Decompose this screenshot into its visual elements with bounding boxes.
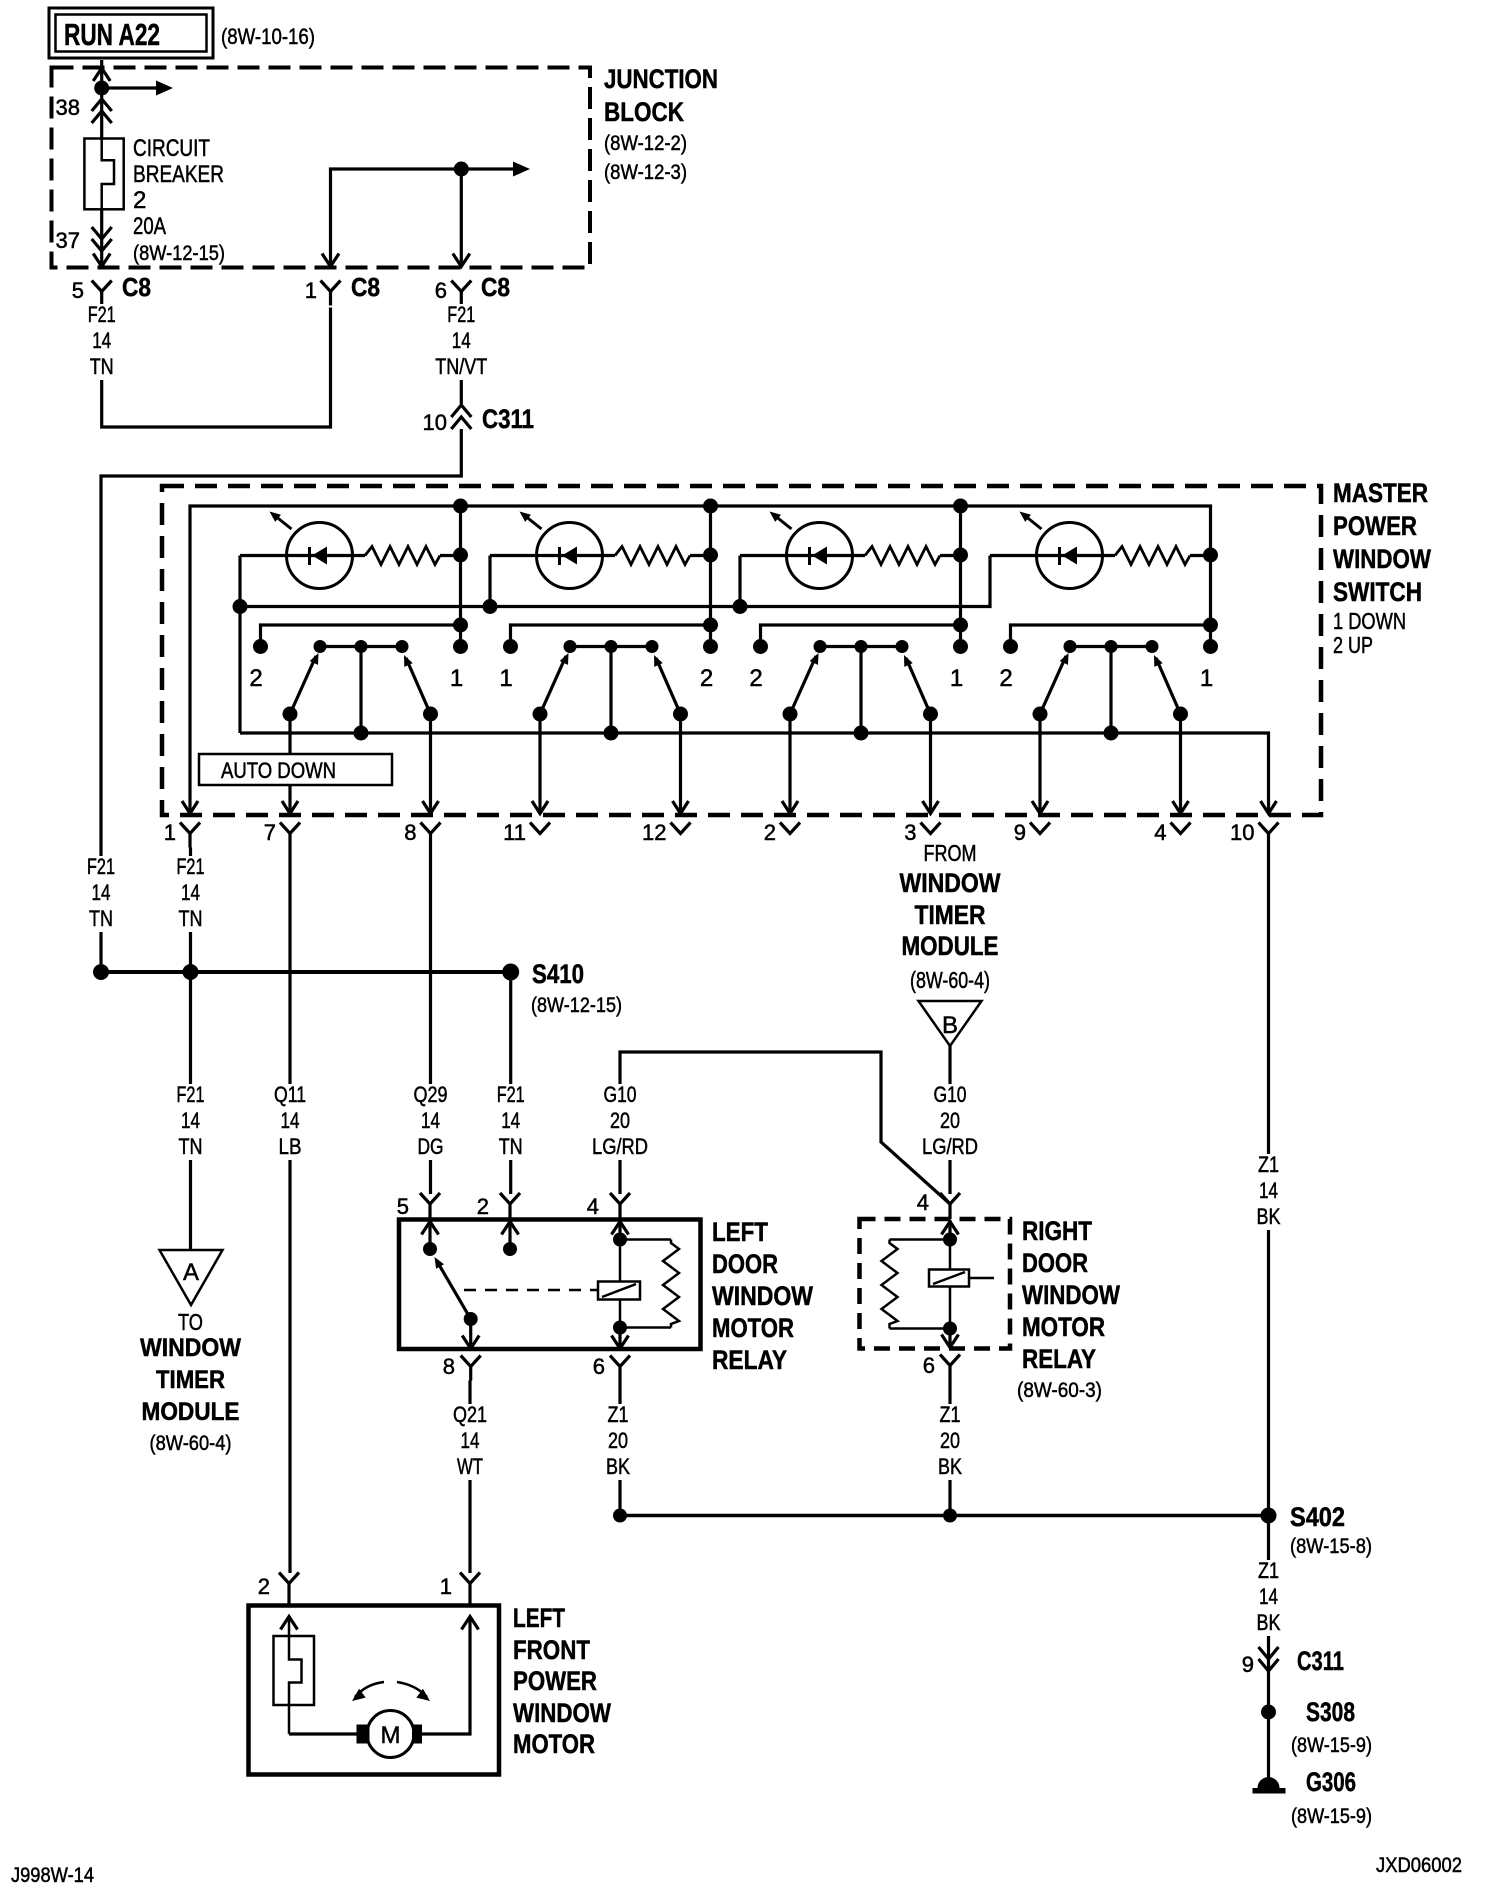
connector C8 pin 6 — [451, 281, 471, 292]
svg-text:1 DOWN: 1 DOWN — [1333, 608, 1406, 634]
lamp L3 wire through bulb — [740, 554, 865, 557]
switch unit 4 wire to bottom pins — [1038, 714, 1041, 813]
svg-text:AUTO DOWN: AUTO DOWN — [221, 758, 336, 783]
switch unit 2 contact dots — [503, 639, 518, 654]
switch S1 arm (down) — [290, 656, 316, 714]
switch unit 4 vertical wire — [1203, 548, 1218, 563]
connector C8 pin 1 — [321, 281, 341, 292]
wire label F21 14 TN (pin 1) — [157, 856, 225, 932]
splice S410 dots — [93, 964, 109, 980]
wire from breaker to motor — [289, 1732, 357, 1735]
right relay coil K2 wire — [949, 1240, 952, 1329]
switch connector pin 9 — [1030, 823, 1050, 834]
svg-text:8: 8 — [443, 1354, 455, 1379]
svg-text:Z1: Z1 — [1258, 1558, 1279, 1583]
illumination lamp L2 circle — [537, 523, 603, 589]
svg-text:1: 1 — [1200, 665, 1213, 692]
svg-text:2: 2 — [133, 187, 146, 214]
switch S2 arm (up) — [656, 658, 681, 714]
svg-text:2: 2 — [249, 665, 262, 692]
svg-text:Z1: Z1 — [1258, 1152, 1279, 1177]
triangle connector B from window timer module — [919, 1001, 982, 1046]
svg-text:1: 1 — [164, 820, 176, 845]
svg-text:BK: BK — [938, 1454, 962, 1479]
wire from RUN A22 into junction block — [100, 60, 103, 140]
svg-text:(8W-15-8): (8W-15-8) — [1290, 1535, 1372, 1558]
wire from switch pin 8 to left relay pin 5 — [429, 848, 432, 1195]
connector C311 pin 10 (double chevron) — [451, 405, 471, 417]
wire from switch pin 10 down right side — [1267, 848, 1270, 1516]
resistor R3 (lamp dropping resistor) — [865, 547, 940, 565]
svg-text:JXD06002: JXD06002 — [1376, 1854, 1462, 1877]
wire from left relay pin 6 to ground bus — [618, 1381, 621, 1516]
svg-text:Q29: Q29 — [414, 1082, 448, 1107]
svg-text:C8: C8 — [122, 272, 151, 302]
svg-text:2: 2 — [749, 665, 762, 692]
wire from motor to pin 1 — [422, 1617, 470, 1734]
lamp L2 diode element — [558, 547, 561, 565]
svg-text:C311: C311 — [1297, 1646, 1344, 1676]
svg-text:M: M — [381, 1722, 401, 1749]
svg-text:RIGHT: RIGHT — [1022, 1216, 1092, 1246]
svg-text:MOTOR: MOTOR — [712, 1313, 794, 1343]
svg-text:RELAY: RELAY — [712, 1345, 787, 1375]
switch unit 2 lamp branch wire — [488, 556, 491, 607]
illumination arrow unit 2 — [524, 515, 542, 529]
connector C8 pin 5 — [92, 281, 112, 292]
svg-text:4: 4 — [917, 1190, 929, 1215]
resistor R4 (lamp dropping resistor) — [1115, 547, 1190, 565]
switch unit 3 lamp branch wire — [738, 556, 741, 607]
wire label Z1 14 BK (below S402) — [1235, 1560, 1303, 1636]
left relay connector pin 4 — [610, 1193, 630, 1204]
switch unit 1 vertical wire — [459, 506, 462, 647]
svg-text:14: 14 — [281, 1108, 300, 1133]
svg-text:J998W-14: J998W-14 — [11, 1864, 94, 1887]
left relay pin 2 terminal — [508, 1220, 511, 1249]
svg-text:Q21: Q21 — [453, 1402, 487, 1427]
svg-text:FRONT: FRONT — [513, 1635, 590, 1665]
ground G306 symbol — [1258, 1777, 1280, 1788]
left relay switch arm — [438, 1263, 471, 1319]
circuit breaker internal element — [102, 139, 114, 210]
master power window switch dashed outline — [162, 486, 1321, 815]
junction dot inside junction block — [454, 162, 469, 177]
svg-text:2: 2 — [258, 1574, 270, 1599]
svg-text:TN: TN — [179, 1134, 203, 1159]
exit arrowhead at border pin 6 — [453, 254, 470, 267]
svg-text:LEFT: LEFT — [712, 1217, 768, 1247]
supply rail wire across top of switch with drop to pin 1 — [190, 506, 1211, 813]
wire unit1 lamp branch down to ground rail — [238, 556, 241, 734]
wire inside junction block from pin 1 up to node — [331, 169, 462, 267]
switch connector exit arrowheads — [182, 801, 198, 814]
wire from left relay pin 8 to motor pin 1 — [468, 1381, 471, 1574]
svg-text:10: 10 — [423, 410, 447, 435]
wire from triangle B to right relay pin 4 — [948, 1046, 951, 1194]
left relay coil K1 — [598, 1282, 640, 1300]
svg-text:20: 20 — [940, 1428, 960, 1453]
svg-text:4: 4 — [587, 1194, 599, 1219]
switch unit 1 pole wire to ground rail — [359, 647, 362, 734]
right relay resistor (coil suppression) — [890, 1238, 951, 1241]
svg-text:S402: S402 — [1290, 1502, 1345, 1532]
ground bus wire to splice S402 — [620, 1514, 1269, 1518]
wire from C8 pin 6 to C311 — [460, 306, 463, 405]
right relay connector pin 4 — [940, 1193, 960, 1204]
svg-text:1: 1 — [499, 665, 512, 692]
svg-text:BLOCK: BLOCK — [604, 97, 684, 127]
svg-text:WINDOW: WINDOW — [1022, 1280, 1120, 1310]
triangle connector A to window timer module — [160, 1250, 223, 1305]
splice S410 bus wire — [101, 970, 511, 974]
switch unit 2 pole wire to ground rail — [609, 647, 612, 734]
svg-text:2 UP: 2 UP — [1333, 632, 1373, 658]
wire from C8 pin 5 down right and up to C8 pin 1 — [102, 306, 331, 428]
svg-text:14: 14 — [1259, 1584, 1278, 1609]
connector C311 pin 9 (double chevron) — [1259, 1647, 1279, 1659]
svg-text:6: 6 — [435, 278, 447, 303]
svg-text:(8W-12-3): (8W-12-3) — [604, 161, 687, 184]
switch unit 3 contact rail wire — [761, 625, 961, 647]
wire label F21 14 TN (below S410) — [157, 1084, 225, 1160]
svg-text:6: 6 — [593, 1354, 605, 1379]
switch connector pin 7 — [280, 823, 300, 834]
right relay entry arrowhead — [942, 1222, 959, 1235]
svg-text:B: B — [942, 1012, 958, 1039]
common rail wire (lamp returns) — [240, 556, 990, 607]
resistor R1 (lamp dropping resistor) — [365, 547, 440, 565]
svg-text:WT: WT — [457, 1454, 483, 1479]
svg-text:TIMER: TIMER — [156, 1366, 225, 1394]
svg-text:Q11: Q11 — [274, 1082, 306, 1107]
wire from S308 to ground G306 — [1267, 1712, 1270, 1778]
illumination arrow unit 1 — [274, 515, 292, 529]
svg-text:F21: F21 — [88, 302, 116, 327]
svg-text:CIRCUIT: CIRCUIT — [133, 135, 210, 162]
svg-text:WINDOW: WINDOW — [140, 1334, 241, 1362]
svg-text:1: 1 — [950, 665, 963, 692]
switch unit 1 contact rail wire — [261, 625, 461, 647]
junction block dashed outline — [52, 68, 591, 268]
switch S1 arm (up) — [406, 658, 431, 714]
motor box entry arrowheads — [281, 1617, 298, 1630]
left relay resistor (coil suppression) — [620, 1238, 671, 1241]
connector symbol pin 38 (double chevron) — [92, 99, 112, 111]
ground bus junction dots — [613, 1509, 627, 1523]
switch connector pin 3 — [921, 823, 941, 834]
motor circuit breaker body — [274, 1636, 315, 1705]
left relay pin 5 terminal — [428, 1220, 431, 1249]
splice S402 — [1261, 1508, 1277, 1524]
svg-text:FROM: FROM — [924, 840, 977, 866]
wire label G10 20 LG/RD (left) — [582, 1084, 658, 1160]
svg-text:G306: G306 — [1306, 1767, 1356, 1797]
exit arrowhead at border pin 1 — [322, 254, 339, 267]
switch connector pin 8 — [421, 823, 441, 834]
ground rail wire across bottom of switch with drop to pin 10 — [240, 733, 1269, 813]
svg-text:38: 38 — [56, 95, 80, 120]
svg-text:(8W-15-9): (8W-15-9) — [1291, 1734, 1372, 1757]
svg-text:LB: LB — [279, 1134, 302, 1159]
wire branch arrow to right inside junction block — [102, 86, 156, 89]
switch connector pin 4 — [1171, 823, 1191, 834]
wire label F21 14 TN — [68, 304, 136, 380]
svg-text:(8W-12-2): (8W-12-2) — [604, 132, 687, 155]
illumination arrow unit 3 — [774, 515, 792, 529]
right relay coil stub wire — [969, 1277, 994, 1280]
svg-text:Z1: Z1 — [608, 1402, 629, 1427]
svg-text:G10: G10 — [934, 1082, 967, 1107]
wire from splice S410 to left relay pin 2 — [509, 972, 512, 1194]
svg-text:LEFT: LEFT — [513, 1603, 565, 1633]
wire label Z1 20 BK (left) — [584, 1404, 652, 1480]
wire label F21 14 TN (to relay) — [477, 1084, 545, 1160]
motor circuit breaker element and wire — [289, 1617, 302, 1734]
svg-text:11: 11 — [503, 820, 526, 845]
switch unit 1 contact bridge wire — [320, 645, 402, 648]
wire from S402 to C311 pin 9 — [1267, 1516, 1270, 1706]
svg-text:F21: F21 — [177, 1082, 205, 1107]
wire from junction dot down to pin 6 — [460, 169, 463, 267]
switch connector pin 12 — [671, 823, 691, 834]
svg-text:1: 1 — [305, 278, 317, 303]
svg-text:10: 10 — [1230, 820, 1254, 845]
svg-text:F21: F21 — [497, 1082, 525, 1107]
svg-text:TN: TN — [89, 906, 113, 931]
svg-text:TN: TN — [499, 1134, 523, 1159]
left relay pin 8 exit wire — [469, 1319, 472, 1348]
switch unit 1 contact dots — [253, 639, 268, 654]
svg-text:WINDOW: WINDOW — [513, 1698, 611, 1728]
svg-text:9: 9 — [1242, 1652, 1254, 1677]
circuit breaker 2 20A body — [84, 139, 123, 210]
wire from C311 pin 10 left and down to splice S410 — [101, 429, 461, 964]
lamp L4 wire through bulb — [990, 554, 1115, 557]
lamp L1 diode element — [308, 547, 311, 565]
switch unit 4 pole wire to ground rail — [1109, 647, 1112, 734]
svg-text:Z1: Z1 — [940, 1402, 961, 1427]
switch connector pin 1 — [180, 823, 200, 834]
wire label Q29 14 DG — [397, 1084, 465, 1160]
left relay connector pin 8 — [461, 1356, 481, 1367]
svg-text:TN/VT: TN/VT — [435, 354, 487, 379]
switch connector pin 10 — [1259, 823, 1279, 834]
svg-text:7: 7 — [264, 820, 276, 845]
svg-text:S308: S308 — [1306, 1697, 1355, 1727]
svg-text:MASTER: MASTER — [1333, 478, 1428, 508]
svg-text:3: 3 — [904, 820, 916, 845]
svg-text:(8W-60-4): (8W-60-4) — [910, 967, 990, 993]
switch unit 3 contact bridge wire — [820, 645, 902, 648]
svg-text:DOOR: DOOR — [1022, 1248, 1088, 1278]
svg-text:BK: BK — [1257, 1610, 1281, 1635]
AUTO DOWN callout box — [199, 754, 392, 785]
junction node dot — [94, 81, 109, 96]
illumination lamp L3 circle — [787, 523, 853, 589]
switch S3 arm (down) — [790, 656, 816, 714]
svg-text:14: 14 — [92, 880, 111, 905]
svg-text:1: 1 — [450, 665, 463, 692]
left relay entry arrowheads — [422, 1222, 439, 1235]
svg-text:C8: C8 — [351, 272, 380, 302]
svg-text:LG/RD: LG/RD — [592, 1134, 648, 1159]
svg-text:(8W-12-15): (8W-12-15) — [133, 242, 225, 265]
right relay pin 6 exit wire — [948, 1329, 951, 1348]
motor terminal left — [357, 1725, 370, 1744]
wire label Z1 20 BK (right) — [916, 1404, 984, 1480]
svg-text:DOOR: DOOR — [712, 1249, 778, 1279]
wire label F21 14 TN left column — [67, 856, 135, 932]
left relay coil wires — [619, 1240, 622, 1282]
svg-text:BREAKER: BREAKER — [133, 161, 224, 188]
switch S4 arm (up) — [1156, 658, 1181, 714]
wire label G10 20 LG/RD (right) — [912, 1084, 988, 1160]
svg-text:5: 5 — [397, 1194, 409, 1219]
svg-text:(8W-60-4): (8W-60-4) — [150, 1432, 232, 1455]
wire from circuit breaker to junction block border — [100, 209, 103, 267]
switch unit 1 wire to bottom pins — [288, 714, 291, 813]
switch unit 3 wire to bottom pins — [788, 714, 791, 813]
svg-text:C8: C8 — [481, 272, 510, 302]
svg-text:14: 14 — [501, 1108, 520, 1133]
svg-text:2: 2 — [477, 1194, 489, 1219]
connector symbol pin 37 (double chevron) — [92, 227, 112, 239]
wire label Q11 14 LB — [256, 1084, 324, 1160]
svg-text:MOTOR: MOTOR — [1022, 1312, 1105, 1342]
svg-text:BK: BK — [606, 1454, 630, 1479]
left relay pin 6 exit wire — [618, 1328, 621, 1349]
svg-text:TN: TN — [90, 354, 114, 379]
svg-text:(8W-15-9): (8W-15-9) — [1291, 1805, 1372, 1828]
svg-text:RELAY: RELAY — [1022, 1344, 1096, 1374]
illumination lamp L1 circle — [287, 523, 353, 589]
svg-text:20: 20 — [610, 1108, 630, 1133]
svg-text:BK: BK — [1257, 1204, 1281, 1229]
power source box RUN A22 — [49, 8, 213, 58]
svg-text:RUN A22: RUN A22 — [64, 17, 160, 52]
svg-text:WINDOW: WINDOW — [1333, 544, 1431, 574]
motor rotation arrows — [355, 1682, 384, 1697]
motor connector pin 2 — [279, 1573, 299, 1584]
left front power window motor box — [249, 1606, 500, 1775]
svg-text:WINDOW: WINDOW — [900, 868, 1001, 898]
svg-text:F21: F21 — [177, 854, 205, 879]
right relay pin 4 terminal — [948, 1220, 951, 1240]
svg-text:LG/RD: LG/RD — [922, 1134, 978, 1159]
svg-text:TO: TO — [178, 1309, 203, 1335]
motor terminal right — [412, 1725, 422, 1744]
svg-text:MODULE: MODULE — [902, 931, 999, 961]
lamp L3 diode element — [808, 547, 811, 565]
svg-text:20: 20 — [940, 1108, 960, 1133]
svg-text:14: 14 — [461, 1428, 480, 1453]
svg-text:37: 37 — [56, 228, 80, 253]
lamp L2 wire through bulb — [490, 554, 615, 557]
switch connector pin 2 — [780, 823, 800, 834]
left relay connector pin 5 — [420, 1193, 440, 1204]
svg-text:JUNCTION: JUNCTION — [604, 64, 718, 94]
svg-text:20A: 20A — [133, 213, 166, 240]
svg-text:MOTOR: MOTOR — [513, 1729, 595, 1759]
illumination arrow unit 4 — [1024, 515, 1042, 529]
left relay pin 4 terminal — [618, 1220, 621, 1240]
svg-text:1: 1 — [440, 1574, 452, 1599]
splice S308 — [1261, 1705, 1276, 1720]
switch unit 2 vertical wire — [709, 506, 712, 647]
switch S4 arm (down) — [1040, 656, 1066, 714]
svg-text:S410: S410 — [532, 959, 584, 989]
svg-text:C311: C311 — [482, 404, 534, 434]
svg-text:12: 12 — [642, 820, 666, 845]
switch unit 4 contact rail wire — [1011, 625, 1211, 647]
svg-text:POWER: POWER — [513, 1666, 597, 1696]
svg-text:14: 14 — [181, 1108, 200, 1133]
switch unit 2 contact bridge wire — [570, 645, 652, 648]
switch unit 3 vertical wire — [959, 506, 962, 647]
wire from switch pin 1 to splice S410 and triangle A — [189, 848, 192, 1251]
lamp L4 diode element — [1058, 547, 1061, 565]
illumination lamp L4 circle — [1037, 523, 1103, 589]
wire from right relay pin 6 to ground bus — [948, 1379, 951, 1516]
switch unit 2 wire to bottom pins — [538, 714, 541, 813]
wire label F21 14 TN/VT — [427, 304, 495, 380]
svg-text:F21: F21 — [87, 854, 115, 879]
svg-text:F21: F21 — [447, 302, 475, 327]
svg-text:5: 5 — [72, 278, 84, 303]
svg-text:POWER: POWER — [1333, 511, 1417, 541]
svg-text:TIMER: TIMER — [915, 900, 986, 930]
svg-text:G10: G10 — [604, 1082, 637, 1107]
svg-text:(8W-60-3): (8W-60-3) — [1017, 1379, 1102, 1402]
motor M1 circle — [367, 1711, 414, 1758]
switch unit 3 pole wire to ground rail — [859, 647, 862, 734]
left relay connector pin 6 — [610, 1356, 630, 1367]
switch unit 2 contact rail wire — [511, 625, 711, 647]
svg-text:4: 4 — [1154, 820, 1166, 845]
svg-text:6: 6 — [923, 1353, 935, 1378]
svg-text:2: 2 — [764, 820, 776, 845]
svg-text:DG: DG — [418, 1134, 444, 1159]
wire label Z1 14 BK (switch pin 10) — [1235, 1154, 1303, 1230]
wire label Q21 14 WT — [436, 1404, 504, 1480]
right relay connector pin 6 — [940, 1355, 960, 1366]
switch unit 4 contact dots — [1003, 639, 1018, 654]
switch unit 3 contact dots — [753, 639, 768, 654]
svg-text:MODULE: MODULE — [142, 1398, 240, 1426]
svg-text:14: 14 — [92, 328, 111, 353]
switch S2 arm (down) — [540, 656, 566, 714]
left relay actuation dashed link — [464, 1289, 597, 1292]
svg-text:2: 2 — [999, 665, 1012, 692]
svg-text:20: 20 — [608, 1428, 628, 1453]
wire from switch pin 7 to motor pin 2 — [288, 848, 291, 1574]
exit arrowhead at border pin 5 — [93, 254, 110, 267]
wire from timer module branch to left relay pin 4 and right relay pin 4 — [620, 1052, 950, 1204]
svg-text:(8W-10-16): (8W-10-16) — [221, 24, 315, 49]
switch S3 arm (up) — [906, 658, 931, 714]
svg-text:9: 9 — [1014, 820, 1026, 845]
left relay connector pin 2 — [500, 1193, 520, 1204]
right door window motor relay dashed box — [860, 1219, 1011, 1349]
svg-text:TN: TN — [179, 906, 203, 931]
svg-text:14: 14 — [421, 1108, 440, 1133]
svg-text:A: A — [183, 1259, 199, 1286]
svg-text:SWITCH: SWITCH — [1333, 577, 1422, 607]
svg-text:WINDOW: WINDOW — [712, 1281, 813, 1311]
svg-text:14: 14 — [452, 328, 471, 353]
svg-text:8: 8 — [404, 820, 416, 845]
